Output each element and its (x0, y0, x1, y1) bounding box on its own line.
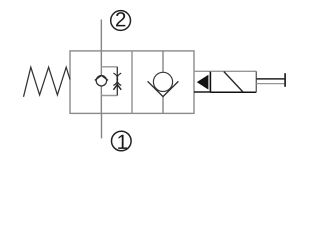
manual override pin upper line (256, 78, 285, 80)
check valve CV1 seat caret (95, 76, 108, 81)
manual override pin lower line (256, 83, 285, 85)
check valve CV1 ball circle (96, 76, 106, 86)
wire bypass top rung (101, 66, 117, 68)
solenoid diagonal stroke (224, 72, 243, 93)
manual override end bar (284, 73, 286, 87)
port number 2 digit (116, 12, 125, 26)
valve body position divider (131, 51, 133, 114)
solenoid box (210, 71, 256, 92)
spring (24, 67, 71, 97)
flow direction arrow up on branch (113, 85, 121, 90)
wire right box lower stub (162, 97, 164, 114)
pilot flow solid triangle (197, 75, 209, 90)
wire bypass branch vertical (116, 67, 118, 96)
pilot armature box (194, 71, 210, 92)
port number 1 digit (118, 135, 127, 149)
node port 1 label circle (112, 131, 132, 151)
wire left box center line (100, 51, 102, 114)
check valve CV2 ball circle (153, 72, 172, 91)
node port 2 label circle (111, 11, 131, 31)
wire bypass bottom rung (101, 95, 117, 97)
wire right box upper stub (162, 51, 164, 73)
orifice restriction arcs (113, 73, 121, 85)
wire port1 vertical line (101, 113, 103, 138)
wire port2 vertical line (100, 20, 102, 51)
check valve CV2 seat vee (148, 81, 179, 96)
valve body outer box (70, 51, 194, 114)
